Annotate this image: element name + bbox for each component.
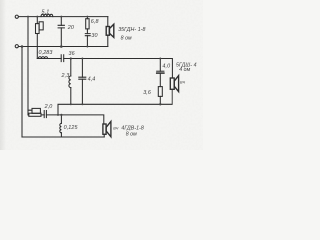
resistor R1 (double rect) — [36, 22, 44, 34]
wire woofer top lead — [107, 17, 109, 27]
capacitor C4 4,4 branch — [79, 59, 86, 105]
speaker BA3 tweeter — [103, 121, 111, 137]
resistor R4 3,6 — [158, 87, 162, 105]
wire H5 tweeter feed — [28, 110, 104, 124]
wire H4 mid return rail — [58, 104, 172, 115]
svg-text:ВЧ: ВЧ — [180, 81, 185, 85]
svg-text:2,0: 2,0 — [44, 104, 53, 110]
capacitor C3 36 — [61, 55, 64, 62]
svg-text:3,6: 3,6 — [143, 90, 151, 96]
wire H3 mid feed line — [37, 59, 172, 79]
svg-text:4 ом: 4 ом — [179, 67, 190, 73]
svg-text:6,8: 6,8 — [91, 19, 99, 25]
svg-text:ВЧ: ВЧ — [113, 127, 118, 131]
svg-text:5,1: 5,1 — [42, 10, 50, 16]
inductor L3 2,3 branch — [69, 59, 71, 105]
resistor R2 6,8 + capacitor C2 30 branch — [85, 17, 90, 47]
svg-text:8 ом: 8 ом — [126, 132, 137, 138]
svg-text:4,4: 4,4 — [88, 76, 96, 82]
svg-text:36: 36 — [69, 51, 75, 57]
svg-text:0,283: 0,283 — [39, 50, 53, 56]
resistor R3 2,0 (double rect) — [29, 108, 41, 116]
wire H1 top rail — [19, 16, 108, 18]
wire H6 bottom rail — [22, 136, 104, 138]
svg-text:0,125: 0,125 — [64, 125, 79, 131]
capacitor C1 20 branch — [58, 17, 64, 47]
junction dots — [21, 16, 162, 116]
wire V3 resistor branch — [36, 17, 38, 59]
speaker BA1 woofer — [106, 24, 114, 37]
terminal T2 — [15, 45, 18, 48]
svg-text:20: 20 — [67, 25, 74, 31]
inductor L4 0,125 branch — [60, 115, 62, 137]
speaker BA2 mid — [170, 76, 178, 105]
terminal T1 — [15, 15, 18, 18]
svg-text:8 ом: 8 ом — [121, 35, 132, 41]
capacitor C6 2,0 — [44, 111, 46, 118]
svg-text:35ГДН- 1-8: 35ГДН- 1-8 — [118, 27, 145, 33]
wire H2 lower input rail — [19, 46, 108, 48]
wire V2 from top rail down — [27, 17, 29, 115]
wire woofer bottom lead — [107, 35, 109, 46]
inductor L2 0,283 — [38, 57, 47, 59]
wire V1 from T2 to bottom rail — [21, 47, 23, 138]
svg-text:2,3: 2,3 — [61, 73, 70, 79]
inductor L1 5,1 — [41, 14, 53, 16]
svg-text:4,0: 4,0 — [162, 64, 170, 70]
svg-text:30: 30 — [91, 33, 97, 39]
capacitor C5 4,0 branch — [157, 59, 164, 87]
svg-text:4ГДВ-1-8: 4ГДВ-1-8 — [121, 125, 144, 131]
